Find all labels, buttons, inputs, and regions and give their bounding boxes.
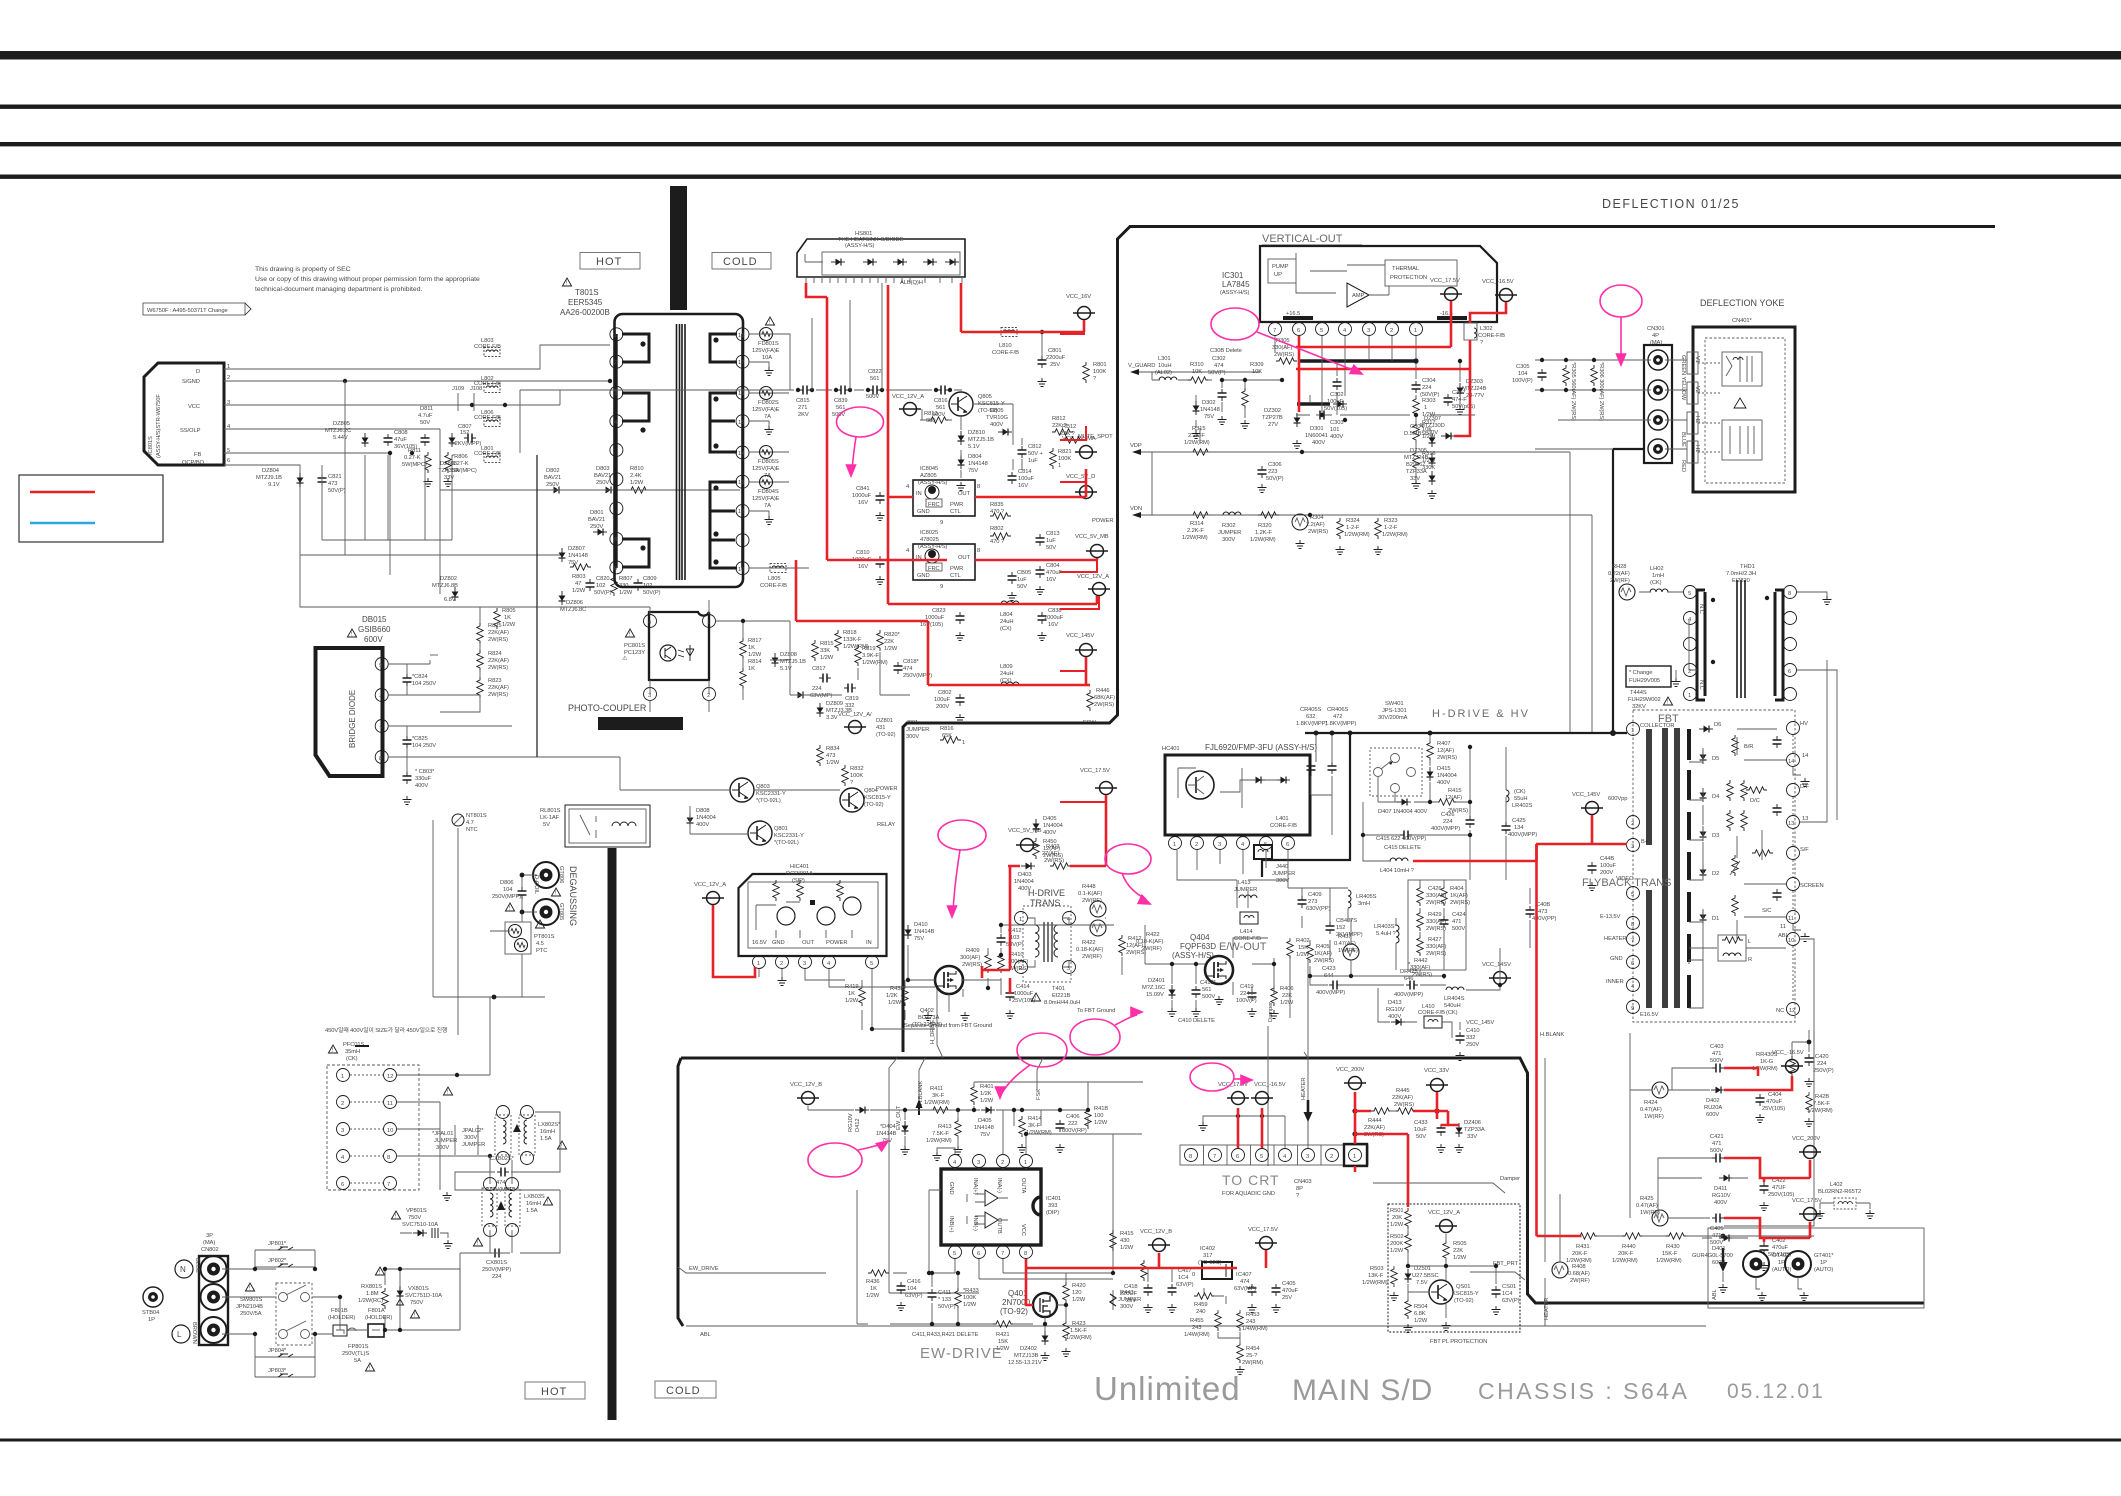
top border bar 3 (0, 142, 2121, 146)
svg-text:8.0mH/44.0uH: 8.0mH/44.0uH (1044, 1000, 1080, 1006)
magenta ellipse E5 (1105, 844, 1152, 908)
jack STB04 1P (142, 1287, 163, 1323)
svg-text:2: 2 (780, 961, 783, 967)
FBT L/R parallel (1689, 935, 1786, 963)
svg-text:473: 473 (1538, 909, 1547, 915)
svg-text:CN403: CN403 (1294, 1179, 1312, 1185)
svg-text:LR404S: LR404S (1444, 996, 1465, 1002)
svg-text:9: 9 (614, 566, 617, 572)
resistor R438 1.5K 1/2W (886, 985, 908, 1006)
inductor LH02 1mH (CK) (1650, 566, 1668, 592)
svg-text:1/2W: 1/2W (1120, 1245, 1134, 1251)
svg-text:27V: 27V (1268, 422, 1278, 428)
red trace to L809 (1086, 684, 1090, 687)
FBT_PRT wire (1470, 1261, 1525, 1280)
svg-text:R404: R404 (1450, 886, 1464, 892)
svg-text:C802: C802 (938, 690, 951, 696)
svg-text:125V(FA)E: 125V(FA)E (752, 407, 780, 413)
svg-text:CN802: CN802 (201, 1247, 219, 1253)
svg-text:C819: C819 (845, 696, 858, 702)
svg-text:400V(MPP): 400V(MPP) (1508, 832, 1537, 838)
svg-text:KSC815-Y: KSC815-Y (864, 795, 891, 801)
svg-text:13: 13 (1802, 816, 1808, 822)
svg-text:7.0mH/2.3H: 7.0mH/2.3H (1726, 571, 1756, 577)
svg-text:224: 224 (492, 1274, 502, 1280)
svg-text:D2: D2 (1712, 871, 1719, 877)
inductor L402 BL02RN2-R65T2 (1816, 1182, 1875, 1219)
svg-text:300V: 300V (464, 1135, 477, 1141)
Q404 FQPF63D label (1172, 933, 1216, 960)
svg-text:C813: C813 (1046, 531, 1059, 537)
resistor R502 200K 1/2W (1390, 1232, 1411, 1254)
svg-text:7: 7 (1001, 1251, 1004, 1257)
HOT/COLD separator black bar (top, above transformer) (670, 186, 687, 310)
svg-text:470 ?: 470 ? (990, 509, 1005, 515)
svg-text:KSC815-Y: KSC815-Y (1452, 1291, 1479, 1297)
wire FB vertical feedback (389, 453, 391, 575)
resistor R433 100K 1/2W (955, 1288, 979, 1309)
svg-text:104: 104 (1518, 371, 1528, 377)
svg-text:R320: R320 (1258, 523, 1271, 529)
svg-text:750V: 750V (408, 1215, 421, 1221)
svg-text:18: 18 (738, 333, 744, 339)
red trace into T401 pin2 (982, 867, 1010, 994)
svg-text:DZ303: DZ303 (1466, 379, 1483, 385)
focus S/F resistor (1752, 850, 1773, 856)
svg-text:L809: L809 (1000, 664, 1013, 670)
svg-text:2W(RS): 2W(RS) (1426, 951, 1446, 957)
svg-text:VCC_14SV: VCC_14SV (1482, 962, 1511, 968)
svg-text:300V: 300V (1120, 1304, 1133, 1310)
svg-text:1/2W(RC): 1/2W(RC) (358, 1298, 383, 1304)
capacitor C809 102 50V(P) (634, 576, 661, 596)
diode D411 RG10V 400V (1712, 1175, 1733, 1207)
resistor R802 470 (990, 526, 1011, 545)
svg-text:R811: R811 (408, 448, 421, 454)
svg-text:GT806: GT806 (558, 866, 564, 883)
capacitor C419 224 100V(P) (1236, 984, 1257, 1017)
fuse FD802S 125V(FA)E 7A (749, 387, 789, 421)
svg-text:13K-F: 13K-F (1368, 1273, 1384, 1279)
bridge pin 9 (375, 658, 388, 671)
transistor Q804 (840, 788, 891, 812)
magenta ellipse E1 (837, 407, 884, 476)
resistor R306 300(AF) 2W(RS) (1591, 362, 1604, 421)
regulator IC8025 box (906, 530, 980, 590)
svg-text:JUMPER: JUMPER (1272, 871, 1295, 877)
svg-text:CORE-F/B: CORE-F/B (1478, 333, 1505, 339)
FSK stub (1036, 1058, 1043, 1100)
PFC coil block dashed (327, 1065, 419, 1190)
svg-text:30V/200mA: 30V/200mA (1378, 715, 1408, 721)
svg-text:(CK): (CK) (1446, 1010, 1458, 1016)
svg-text:IC8025: IC8025 (920, 530, 938, 536)
svg-text:(MA): (MA) (1650, 340, 1662, 346)
svg-text:0.47(AF): 0.47(AF) (1334, 941, 1356, 947)
svg-text:1N4004: 1N4004 (696, 815, 717, 821)
svg-text:9: 9 (940, 520, 943, 526)
svg-text:2W(RS): 2W(RS) (962, 962, 982, 968)
inductor L801 CORE-F/B (474, 446, 501, 463)
ABL arrow inside (1712, 1248, 1728, 1300)
svg-text:1: 1 (1414, 328, 1417, 334)
svg-text:Use or copy of this drawing wi: Use or copy of this drawing without prop… (255, 276, 480, 283)
svg-text:R442: R442 (1414, 958, 1427, 964)
capacitor C823 1000uF 16V(105) (920, 608, 965, 641)
svg-text:L414: L414 (1240, 929, 1253, 935)
diode D402 RU20A 600V (1704, 1087, 1725, 1119)
svg-text:CN301: CN301 (1647, 326, 1665, 332)
svg-text:JP803*: JP803* (268, 1368, 287, 1374)
svg-text:BAV21: BAV21 (544, 475, 561, 481)
bridge pin minus (375, 689, 388, 702)
svg-text:478025: 478025 (920, 537, 939, 543)
resistor R459 240 (1194, 1293, 1215, 1315)
resistor R403 27(AF) 2W(RS) (1042, 844, 1071, 869)
svg-text:2W(RF): 2W(RF) (1610, 578, 1630, 584)
bottom border line (0, 1439, 2121, 1442)
svg-text:R415: R415 (1448, 788, 1461, 794)
svg-text:33V: 33V (1410, 476, 1420, 482)
svg-text:C433: C433 (1414, 1120, 1427, 1126)
horizontal coil pair (1722, 420, 1762, 460)
svg-text:JP801*: JP801* (268, 1241, 287, 1247)
H_BLANK stub (916, 1058, 926, 1115)
svg-text:GND: GND (917, 573, 930, 579)
resistor R402 15K 1/2W (1287, 938, 1310, 959)
FBT pins left column (1600, 723, 1674, 1019)
svg-text:D415: D415 (1437, 766, 1450, 772)
svg-text:1K: 1K (748, 666, 755, 672)
jumper JP804 (255, 1348, 315, 1357)
inductor L806 CORE-F/B (474, 410, 501, 427)
svg-text:65K: 65K (942, 733, 952, 739)
svg-text:PC801S: PC801S (624, 643, 645, 649)
svg-text:*R806: *R806 (452, 454, 468, 460)
svg-text:63V(P): 63V(P) (905, 1293, 923, 1299)
svg-text:RG10V: RG10V (848, 1113, 854, 1132)
svg-text:VCC_200V: VCC_200V (1792, 1136, 1820, 1142)
svg-text:C816: C816 (934, 398, 947, 404)
wire pin3 VCC (224, 390, 560, 405)
svg-text:JUMPER: JUMPER (906, 727, 929, 733)
svg-text:1P: 1P (1820, 1260, 1827, 1266)
svg-text:EI221B: EI221B (1052, 993, 1071, 999)
svg-text:RH28: RH28 (1612, 564, 1626, 570)
svg-text:RELAY: RELAY (877, 822, 895, 828)
svg-text:R807: R807 (619, 576, 632, 582)
svg-text:CORE-F/B: CORE-F/B (1270, 823, 1297, 829)
svg-text:C418: C418 (1124, 1284, 1137, 1290)
svg-text:VCC_145V: VCC_145V (1466, 1020, 1494, 1026)
VERTICAL-OUT title (1262, 233, 1362, 245)
svg-text:R427: R427 (1428, 937, 1441, 943)
svg-text:R824: R824 (488, 651, 502, 657)
svg-text:DZ808: DZ808 (780, 652, 797, 658)
svg-text:C420: C420 (1815, 1054, 1828, 1060)
resistor R415 430 1/2W (1110, 1230, 1134, 1251)
red trace crt pins (1238, 1108, 1262, 1148)
svg-text:1/2W: 1/2W (1072, 1297, 1086, 1303)
svg-text:(TO-92): (TO-92) (876, 732, 896, 738)
svg-text:600V: 600V (1706, 1112, 1719, 1118)
svg-text:22K(AF): 22K(AF) (488, 658, 509, 664)
svg-text:0.18-K(AF): 0.18-K(AF) (1136, 939, 1164, 945)
svg-text:R422: R422 (1146, 932, 1159, 938)
svg-text:CXB02S*: CXB02S* (490, 1156, 515, 1162)
svg-text:JPAL02*: JPAL02* (462, 1128, 484, 1134)
svg-text:1N4148: 1N4148 (968, 461, 988, 467)
svg-text:L810: L810 (999, 343, 1012, 349)
pc transistor (660, 645, 676, 661)
svg-text:20K-F: 20K-F (1618, 1251, 1634, 1257)
power VCC_17.5V (vert) (1430, 278, 1462, 301)
svg-text:R825: R825 (488, 623, 501, 629)
HIC401 box (739, 864, 887, 956)
svg-text:R323: R323 (1384, 518, 1397, 524)
capacitor C815 271 2KV (796, 386, 811, 419)
jack GT402 (1743, 1251, 1792, 1301)
svg-text:1: 1 (707, 620, 710, 626)
capacitor D806 104 250V(MPP) (492, 880, 527, 912)
resistor R420 120 1/2W (1063, 1282, 1086, 1303)
svg-text:10: 10 (1788, 938, 1794, 944)
svg-text:-: - (379, 694, 381, 700)
svg-text:R430: R430 (1666, 1244, 1679, 1250)
svg-text:C421: C421 (1710, 1134, 1723, 1140)
svg-text:102: 102 (596, 583, 605, 589)
connector CN301 4P (MA) (1644, 326, 1672, 463)
capacitor C307 (1444, 390, 1476, 410)
svg-text:RR430S: RR430S (1756, 1052, 1778, 1058)
svg-text:1W(RF): 1W(RF) (1644, 1114, 1664, 1120)
red trace L404 to B+ (1413, 844, 1537, 861)
svg-text:220UF: 220UF (1120, 1291, 1137, 1297)
svg-text:INNER: INNER (1606, 979, 1624, 985)
jack GT401 (1785, 1251, 1834, 1301)
FBT HV diode D6 (1699, 722, 1721, 733)
wires CN301 to yoke (1535, 360, 1687, 449)
svg-text:1/2W: 1/2W (630, 480, 644, 486)
red trace vertical out -16.5 via L302 (1296, 302, 1506, 436)
svg-text:25V: 25V (1126, 1298, 1136, 1304)
zener column DZ304 DZ305 (1404, 424, 1437, 499)
ground pin15 (749, 421, 774, 435)
svg-text:VCC_12V_A: VCC_12V_A (1077, 574, 1109, 580)
svg-text:R835: R835 (990, 502, 1003, 508)
diode D302 1N4148 75V (1193, 400, 1220, 420)
svg-text:EER5345: EER5345 (568, 298, 603, 307)
svg-text:5: 5 (953, 1251, 956, 1257)
+16.5 bar (1283, 316, 1313, 320)
capacitor C303 101 400V (1316, 411, 1343, 441)
svg-text:DZ810: DZ810 (968, 430, 985, 436)
svg-text:BAV21: BAV21 (588, 517, 605, 523)
svg-text:H2: H2 (1694, 416, 1700, 423)
svg-text:11: 11 (1788, 916, 1794, 922)
svg-text:C423: C423 (1322, 966, 1335, 972)
pc pin3 (644, 688, 657, 701)
svg-text:55uH: 55uH (1514, 796, 1527, 802)
svg-text:C405: C405 (1710, 1226, 1723, 1232)
inductor L804 24uH (CX) (1000, 601, 1019, 632)
svg-text:To FBT Ground: To FBT Ground (1077, 1008, 1115, 1014)
svg-text:DZ305: DZ305 (1410, 448, 1427, 454)
svg-text:R802: R802 (990, 526, 1003, 532)
svg-text:(TO-92): (TO-92) (1000, 1307, 1028, 1316)
svg-text:12: 12 (738, 509, 744, 515)
svg-text:PWR: PWR (950, 502, 963, 508)
right winding bar pins16-14 (710, 393, 737, 452)
svg-text:16V: 16V (1048, 622, 1058, 628)
svg-text:16V: 16V (1046, 577, 1056, 583)
svg-text:EW-DRIVE: EW-DRIVE (920, 1345, 1003, 1362)
svg-text:BROWN: BROWN (191, 1322, 197, 1344)
svg-text:R814: R814 (748, 659, 762, 665)
svg-text:C415 622 400V(PP): C415 622 400V(PP) (1376, 836, 1426, 842)
svg-text:SVC7510-10A: SVC7510-10A (402, 1222, 438, 1228)
svg-text:MAIN S/D: MAIN S/D (1292, 1374, 1433, 1407)
svg-text:24uH: 24uH (1000, 671, 1013, 677)
svg-text:1: 1 (614, 333, 617, 339)
resistor R305 330(AF) 2W(RS) (1272, 338, 1297, 364)
svg-text:MTZJ24B: MTZJ24B (1404, 455, 1429, 461)
svg-text:1: 1 (1424, 405, 1427, 411)
svg-text:LXB03S: LXB03S (524, 1194, 545, 1200)
svg-text:(ASSY-H/S)STR-W6750F: (ASSY-H/S)STR-W6750F (156, 394, 162, 458)
regulator IC8045 box (906, 466, 980, 526)
thermistor PT801S 4.5 PTC (505, 920, 555, 954)
IC402 7812 (1192, 1246, 1238, 1279)
svg-text:22K: 22K (1282, 993, 1292, 999)
svg-text:22K(AF): 22K(AF) (1392, 1095, 1413, 1101)
svg-text:GND: GND (948, 1182, 954, 1195)
transformer LX802S 16mH 1.5A (495, 1106, 567, 1165)
grounds q404 (1168, 996, 1224, 1017)
svg-text:R834: R834 (826, 746, 840, 752)
svg-text:(TO-92): (TO-92) (1454, 1298, 1474, 1304)
HC401 pins (1169, 837, 1295, 850)
inductor L413 JUMPER (1234, 880, 1257, 898)
svg-text:C812: C812 (1028, 444, 1041, 450)
svg-text:D302: D302 (1202, 400, 1215, 406)
wire pin6 OCP/BO (224, 465, 537, 607)
svg-text:VCC_17.5V: VCC_17.5V (1080, 768, 1110, 774)
svg-text:300V: 300V (1222, 537, 1235, 543)
capacitor C825 (403, 736, 437, 749)
main title: Unlimited MAIN S/D CHASSIS : S64A 05.12.01 (1094, 1370, 1825, 1407)
diode D413 RG10V 400V (1386, 1000, 1405, 1026)
lower section frame left edge (678, 1058, 683, 1326)
red trace R445 to 33V (1413, 1092, 1459, 1125)
svg-text:D412: D412 (855, 1119, 861, 1132)
svg-text:OUT: OUT (958, 491, 970, 497)
svg-text:1C4: 1C4 (1502, 1291, 1513, 1297)
resistor R443 JUMPER 300V (1110, 1290, 1141, 1310)
svg-text:JP804*: JP804* (268, 1348, 287, 1354)
svg-text:0.1-K(AF): 0.1-K(AF) (1078, 891, 1102, 897)
HOT label box (bottom) (525, 1382, 585, 1399)
VDN arrow (1130, 506, 1592, 733)
svg-text:CTL: CTL (950, 509, 962, 515)
svg-text:100uF: 100uF (1600, 863, 1616, 869)
svg-text:F801B: F801B (331, 1308, 348, 1314)
svg-text:VCC_17.5V: VCC_17.5V (1792, 1198, 1822, 1204)
svg-text:E16.5V: E16.5V (1640, 1012, 1659, 1018)
svg-text:(TO-92C): (TO-92C) (1198, 1260, 1222, 1266)
svg-text:VCC_12V_A: VCC_12V_A (1428, 1210, 1460, 1216)
svg-text:134: 134 (1514, 825, 1524, 831)
svg-text:600V: 600V (364, 635, 383, 644)
zener DZ406 TZP33A 33V (1455, 1120, 1485, 1153)
svg-text:16mH: 16mH (526, 1201, 541, 1207)
svg-text:R821: R821 (1058, 449, 1071, 455)
svg-text:24uH: 24uH (1000, 619, 1013, 625)
svg-text:W6750F : A495-50371T Change: W6750F : A495-50371T Change (147, 308, 228, 314)
top border bar 4 (0, 175, 2121, 179)
wire pin1 D (224, 345, 610, 369)
svg-text:5: 5 (1688, 591, 1691, 597)
inductor L805 CORE-F/B pin10 (749, 564, 809, 590)
svg-text:CORE-F/B: CORE-F/B (760, 583, 787, 589)
ground right of THD1 (1797, 592, 1832, 605)
svg-text:TO CRT: TO CRT (1222, 1172, 1280, 1188)
svg-text:MTZJ6.2C: MTZJ6.2C (325, 428, 351, 434)
svg-text:22K(AF): 22K(AF) (1364, 1125, 1385, 1131)
svg-text:VCC_12V_A: VCC_12V_A (694, 882, 726, 888)
magenta ellipse E2 (1211, 308, 1364, 378)
power VCC_145V (hdrive) (1572, 792, 1603, 815)
svg-text:Q805: Q805 (978, 394, 992, 400)
resistor RB12 22K (1060, 424, 1083, 443)
svg-text:SVC751D-10A: SVC751D-10A (405, 1293, 442, 1299)
svg-text:GND: GND (772, 940, 785, 946)
svg-text:R423: R423 (1072, 1321, 1085, 1327)
svg-text:R302: R302 (1222, 523, 1235, 529)
svg-text:L404 10mH ?: L404 10mH ? (1380, 868, 1415, 874)
svg-text:431: 431 (876, 725, 885, 731)
svg-text:D806: D806 (500, 880, 513, 886)
svg-text:GSIB660: GSIB660 (358, 625, 391, 634)
svg-text:(HOLDER): (HOLDER) (328, 1315, 355, 1321)
svg-text:22K(AF): 22K(AF) (488, 630, 509, 636)
svg-text:C410 DELETE: C410 DELETE (1178, 1018, 1215, 1024)
svg-text:101: 101 (1330, 427, 1339, 433)
svg-text:FLYBACK TRANS: FLYBACK TRANS (1582, 877, 1671, 889)
resistor R303 1 1/2W (1413, 396, 1436, 418)
svg-text:RB12: RB12 (1062, 424, 1076, 430)
svg-text:450V일때 400V일이 SIZE가 달라 450V일으로: 450V일때 400V일이 SIZE가 달라 450V일으로 진행 (325, 1026, 447, 1034)
svg-text:CX801S: CX801S (486, 1260, 507, 1266)
svg-text:CR406S: CR406S (1327, 707, 1349, 713)
svg-text:2W(RS): 2W(RS) (1274, 352, 1294, 358)
power VCC_200V (right) (1792, 1136, 1821, 1159)
svg-text:50V(P): 50V(P) (1266, 476, 1284, 482)
svg-text:470uF: 470uF (1766, 1099, 1782, 1105)
wires q404 area (1145, 925, 1290, 1166)
diode small row (793, 692, 807, 699)
svg-text:R817: R817 (748, 638, 761, 644)
svg-text:NC: NC (1776, 1008, 1784, 1014)
wires vertical-out region (1152, 336, 1475, 515)
resistor R413 7.5K-F 1/2W(RM) (926, 1118, 963, 1155)
THD1 transformer body (1684, 580, 1797, 701)
svg-text:R450: R450 (1043, 839, 1056, 845)
capacitor C401 471 500V (1710, 1214, 1724, 1247)
svg-text:50V(P): 50V(P) (328, 488, 346, 494)
svg-text:16V: 16V (858, 500, 868, 506)
svg-text:BLUE: BLUE (1680, 432, 1686, 447)
